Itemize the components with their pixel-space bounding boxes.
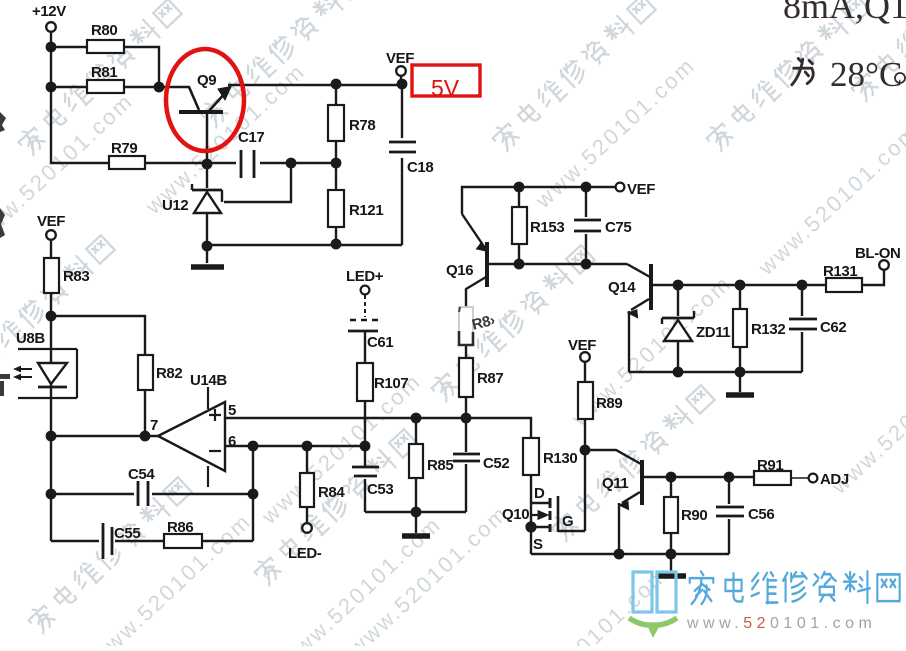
wire R91 to ADJ <box>791 477 809 479</box>
wire C52 branch <box>465 418 467 512</box>
wire pin6 rail <box>225 445 365 447</box>
resistor R132 <box>733 309 785 347</box>
wire opamp output <box>51 435 158 437</box>
terminal BL-ON <box>879 260 889 270</box>
wire C53 branch <box>364 446 366 512</box>
wire Q11 collector rail to R91 <box>643 476 754 478</box>
logo text jiadian weixiu ziliao wang <box>690 571 900 604</box>
wire C61 R107 column <box>364 331 366 446</box>
svg-text:S: S <box>533 536 543 553</box>
terminal VEF top <box>396 66 406 76</box>
resistor R78 <box>328 105 375 141</box>
capacitor C53 <box>352 466 393 498</box>
resistor R79 <box>109 140 145 169</box>
wire R85 branch <box>415 418 417 512</box>
transistor Q16 <box>462 214 487 287</box>
svg-text:LED-: LED- <box>288 545 322 562</box>
wire bottom rail U12 to C18 <box>207 244 402 246</box>
wire R78 R121 column <box>335 85 337 244</box>
svg-text:R132: R132 <box>751 321 785 338</box>
resistor R153 <box>512 207 564 244</box>
svg-text:6: 6 <box>228 433 236 450</box>
wire VEF terminal stem <box>400 76 402 84</box>
svg-text:ADJ: ADJ <box>820 471 849 488</box>
red 5V annotation box <box>412 65 480 96</box>
resistor R121 <box>328 190 383 227</box>
wire ground rail under C53 R85 C52 <box>365 511 466 513</box>
svg-text:5: 5 <box>228 402 236 419</box>
svg-text:VEF: VEF <box>37 213 65 230</box>
svg-text:R83: R83 <box>63 268 89 285</box>
junction dots Q16 Q14 block <box>514 182 808 378</box>
resistor R86 <box>164 519 202 548</box>
wire R132 column <box>739 285 741 372</box>
scan artifacts left edge <box>0 112 10 396</box>
svg-text:U12: U12 <box>162 197 188 214</box>
wire ground stem bottom <box>670 554 672 573</box>
wire Q14 base slant <box>627 264 650 277</box>
resistor R84 <box>300 473 345 507</box>
svg-text:28°C: 28°C <box>830 55 902 94</box>
op-amp U14B <box>158 387 225 487</box>
wire VEF to optocoupler to opamp output node <box>50 239 52 541</box>
svg-text:G: G <box>562 513 573 530</box>
wire R82 branch <box>51 316 145 436</box>
wire C55 R86 rail <box>51 540 253 542</box>
wire Q14 emitter drop <box>628 311 630 372</box>
terminal LED- <box>302 523 312 533</box>
wire ZD11 column <box>677 285 679 372</box>
svg-text:R78: R78 <box>349 117 375 134</box>
red circle annotation around Q9 <box>166 49 244 151</box>
resistor R83 <box>44 258 89 293</box>
terminal LED+ <box>361 286 370 295</box>
wire R81 rail to Q9 <box>51 86 190 88</box>
wire C54/R86 riser to pin6 <box>252 446 254 541</box>
svg-text:www.520101.com: www.520101.com <box>686 615 876 632</box>
resistor R89 <box>578 382 622 419</box>
svg-text:Q16: Q16 <box>446 262 473 279</box>
wire R153 branch <box>518 187 520 264</box>
capacitor C52 <box>453 452 509 472</box>
resistor R81 <box>87 64 124 93</box>
svg-text:R87: R87 <box>477 370 503 387</box>
terminal VEF left <box>46 230 56 240</box>
svg-text:R130: R130 <box>543 450 577 467</box>
svg-text:R153: R153 <box>530 219 564 236</box>
svg-text:Q14: Q14 <box>608 279 636 296</box>
Q16 block wires <box>462 187 884 418</box>
svg-text:8mA,Q1: 8mA,Q1 <box>783 0 906 26</box>
svg-text:U8B: U8B <box>16 330 45 347</box>
wire source lead <box>531 526 549 528</box>
wire Q14 collector rail <box>652 284 826 286</box>
svg-text:LED+: LED+ <box>346 268 384 285</box>
junction dots Q10 Q11 block <box>525 445 734 560</box>
resistor R90 <box>664 497 707 533</box>
ground mid <box>402 533 430 539</box>
svg-text:C52: C52 <box>483 455 509 472</box>
svg-text:Q11: Q11 <box>602 475 628 492</box>
terminal VEF mid <box>616 183 625 192</box>
svg-text:R121: R121 <box>349 202 383 219</box>
ground bottom <box>656 573 686 579</box>
capacitor C18 <box>389 138 433 176</box>
wire Q16 emitter to VEF rail <box>462 187 616 214</box>
svg-text:C62: C62 <box>820 319 846 336</box>
wire U12 anode stem to ground <box>206 213 208 263</box>
top right text wei 28C <box>792 55 905 94</box>
svg-text:Q9: Q9 <box>197 72 216 89</box>
wire Q16 base rail <box>489 263 627 265</box>
terminal VEF lower <box>580 352 590 362</box>
capacitor C54 <box>128 466 155 506</box>
wire C54 rail <box>51 493 253 495</box>
wire +12V vertical and R79 rail <box>51 31 336 163</box>
capacitor C75 <box>574 217 631 236</box>
wire R130 drain column <box>530 475 532 554</box>
ground right <box>726 392 754 398</box>
svg-text:+12V: +12V <box>32 3 66 20</box>
junction dots top-left block <box>46 42 408 252</box>
capacitor C56 <box>716 504 774 523</box>
resistor R130 <box>523 438 577 475</box>
svg-text:R131: R131 <box>823 263 857 280</box>
resistor R131 <box>823 263 862 292</box>
transistor Q14 <box>628 264 651 318</box>
svg-text:BL-ON: BL-ON <box>855 245 901 262</box>
svg-text:R8›: R8› <box>470 312 497 334</box>
capacitor C55 <box>99 523 140 559</box>
resistor R91 <box>754 457 791 485</box>
svg-text:C53: C53 <box>367 481 393 498</box>
svg-text:R91: R91 <box>757 457 783 474</box>
svg-text:R80: R80 <box>91 22 117 39</box>
resistor R85 <box>409 444 453 478</box>
capacitor C61 dashed <box>348 295 381 331</box>
terminal +12V <box>46 22 56 32</box>
Q10 Q11 block wires <box>531 361 809 573</box>
transistor Q9 <box>179 87 231 165</box>
resistor R87 <box>459 358 503 397</box>
resistor R107 <box>357 363 408 401</box>
svg-text:R86: R86 <box>167 519 193 536</box>
wire C75 branch <box>585 187 587 264</box>
zener diode ZD11 <box>662 311 694 341</box>
svg-text:5V: 5V <box>431 75 460 101</box>
resistor R80 <box>87 22 124 53</box>
svg-text:C55: C55 <box>114 525 140 542</box>
wire drain lead <box>531 502 549 504</box>
transistor Q11 <box>619 460 642 510</box>
svg-text:R85: R85 <box>427 457 453 474</box>
wire Q11 base <box>585 450 641 464</box>
capacitor C17 <box>236 129 264 178</box>
wire ground stem mid <box>415 512 417 533</box>
resistor R82 <box>138 355 182 390</box>
svg-text:C54: C54 <box>128 466 155 483</box>
svg-text:7: 7 <box>150 417 158 434</box>
zener diode U12 <box>192 184 222 213</box>
wire C56 column <box>728 477 730 554</box>
svg-text:VEF: VEF <box>627 181 655 198</box>
svg-text:R82: R82 <box>156 365 182 382</box>
wire zener tap from node to R78/R121 junction <box>224 163 291 202</box>
wire source bottom rail <box>531 553 729 555</box>
svg-text:VEF: VEF <box>386 50 414 67</box>
ground under U12 <box>191 264 224 270</box>
wire pin5 rail to R130 <box>225 418 531 438</box>
svg-text:R107: R107 <box>374 375 408 392</box>
wire C62 column <box>801 285 803 372</box>
wire Q9 top rail to VEF <box>228 84 402 86</box>
optocoupler U8B <box>13 349 77 398</box>
svg-text:ZD11: ZD11 <box>696 324 730 341</box>
svg-text:Q10: Q10 <box>502 506 529 523</box>
terminal ADJ <box>809 474 818 483</box>
svg-text:C18: C18 <box>407 159 433 176</box>
wire Q16 collector to R88 R87 column <box>466 277 486 418</box>
wire Q11 emitter drop <box>618 503 620 554</box>
svg-text:R81: R81 <box>91 64 117 81</box>
svg-text:C56: C56 <box>748 506 774 523</box>
svg-text:C75: C75 <box>605 219 631 236</box>
resistor R88 faded <box>459 307 497 345</box>
wire ground stem right <box>739 372 741 392</box>
svg-text:C17: C17 <box>238 129 264 146</box>
svg-text:R89: R89 <box>596 395 622 412</box>
CIRCUIT <box>51 31 402 263</box>
capacitor C62 <box>789 316 846 336</box>
svg-text:D: D <box>534 485 545 502</box>
wire VEF to R89 to gate column <box>584 361 586 531</box>
wire R84 branch to LED- <box>306 446 308 523</box>
wire R90 column <box>670 477 672 554</box>
svg-text:R84: R84 <box>318 484 345 501</box>
left lower block wires <box>51 239 531 541</box>
svg-text:VEF: VEF <box>568 337 596 354</box>
junction dots left block <box>46 311 472 518</box>
wire bottom rail ZD11 R132 C62 <box>629 371 802 373</box>
wire R80 rail <box>51 47 159 87</box>
wire R131 to BL-ON <box>862 270 884 285</box>
wire U12 cathode stem <box>206 114 208 188</box>
svg-text:U14B: U14B <box>190 372 227 389</box>
wire C18 column <box>401 84 403 245</box>
wire gate lead <box>558 530 585 532</box>
logo book icon <box>629 572 677 638</box>
svg-text:C61: C61 <box>367 334 393 351</box>
svg-text:R79: R79 <box>111 140 137 157</box>
svg-text:R90: R90 <box>681 507 707 524</box>
mosfet Q10 <box>531 496 558 532</box>
